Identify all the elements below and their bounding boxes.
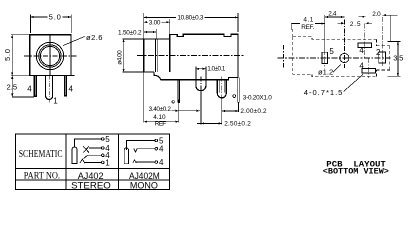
dimension 5.0 top — [30, 12, 71, 33]
svg-text:MONO: MONO — [130, 180, 158, 191]
dimension 10.80+-0.3 — [144, 13, 238, 32]
pad 2 right — [379, 52, 386, 63]
dimension 1.50+-0.2 — [118, 29, 156, 39]
svg-text:4: 4 — [359, 61, 364, 70]
svg-text:ø2.6: ø2.6 — [86, 33, 103, 42]
body bottom-left step — [153, 72, 155, 75]
switch contact lower — [83, 155, 87, 159]
svg-text:REF: REF — [155, 121, 166, 128]
switch contact v — [134, 149, 137, 152]
svg-text:1: 1 — [105, 158, 110, 167]
dimension 3.5 — [388, 41, 404, 76]
centerline hole — [343, 20, 345, 69]
leader + label o2.6 — [63, 33, 103, 46]
wire to terminal 4a — [89, 147, 102, 149]
svg-text:2.00±0.2: 2.00±0.2 — [240, 108, 267, 115]
svg-text:4: 4 — [69, 85, 74, 94]
svg-text:4: 4 — [359, 46, 364, 55]
terminal 1 — [102, 161, 105, 164]
wire to terminal 5 — [126, 141, 155, 148]
svg-text:4-0.7*1.5: 4-0.7*1.5 — [304, 88, 343, 97]
dimension 2.50+-0.2 — [197, 121, 251, 128]
svg-text:5: 5 — [329, 47, 334, 56]
centerline pads 4 — [363, 24, 365, 59]
svg-text:3-0.20X1.0: 3-0.20X1.0 — [243, 95, 272, 102]
terminal 5 — [102, 138, 105, 141]
svg-text:4.1: 4.1 — [303, 16, 313, 23]
sleeve/bushing side — [144, 39, 170, 72]
terminal 4b — [102, 154, 105, 157]
wire to terminal 4b — [88, 154, 102, 156]
svg-text:3.00: 3.00 — [149, 19, 161, 26]
jack body front view — [30, 35, 75, 76]
dimension 2.00+-0.2 — [222, 108, 267, 115]
hole o1.2 — [340, 53, 349, 62]
dimension 3.40+-0.2 — [149, 106, 200, 113]
extension centerline U2 — [221, 77, 223, 98]
extension pad5 top — [324, 15, 326, 50]
extension sleeve tip down — [143, 72, 145, 123]
dimension 1.0+-0.1 (U1 pin width) — [196, 66, 226, 80]
wire to terminal 1 — [85, 161, 102, 163]
table grid — [16, 134, 170, 190]
horizontal centerline — [24, 55, 77, 57]
dimension 5.0 left — [3, 35, 30, 76]
pin U2 round side view — [217, 80, 226, 98]
svg-text:10.80±0.3: 10.80±0.3 — [177, 14, 203, 21]
svg-text:REF.: REF. — [301, 24, 314, 31]
centerline pad5 — [324, 50, 326, 69]
centerline side view — [137, 54, 245, 56]
svg-text:5.0: 5.0 — [3, 49, 12, 61]
small circle marker right pin — [233, 95, 236, 98]
dimension 3.00 — [144, 19, 170, 39]
svg-text:1.0±0.1: 1.0±0.1 — [207, 66, 225, 73]
small circle marker left pin — [172, 101, 174, 103]
dimension 2.5 (pin length) — [7, 76, 35, 97]
pin U1 round side view — [196, 80, 206, 91]
pad 4 top — [358, 43, 372, 48]
pin (flat) right side view — [238, 77, 240, 102]
pin 4 left (front) — [34, 76, 36, 97]
svg-text:SCHEMATIC: SCHEMATIC — [19, 149, 63, 160]
svg-text:2.5: 2.5 — [7, 82, 18, 91]
svg-text:3.5: 3.5 — [393, 53, 403, 62]
wire to terminal 4a — [137, 148, 155, 150]
svg-text:2.0: 2.0 — [372, 11, 381, 18]
svg-text:4: 4 — [159, 145, 164, 154]
bushing middle circle — [39, 45, 61, 67]
svg-text:1.50±0.2: 1.50±0.2 — [118, 29, 142, 36]
jack barrel mono — [124, 148, 128, 164]
main horizontal centerline pcb — [278, 57, 391, 59]
svg-text:2: 2 — [376, 48, 381, 57]
dimension 2.4 — [325, 11, 345, 19]
svg-text:ø1.2: ø1.2 — [318, 68, 333, 77]
jack hole circle o2.6 — [40, 46, 59, 65]
terminal 4a — [155, 147, 158, 150]
svg-text:1: 1 — [53, 97, 58, 106]
svg-text:PART NO.: PART NO. — [24, 170, 60, 181]
svg-text:4: 4 — [159, 158, 164, 167]
svg-text:STEREO: STEREO — [71, 180, 111, 191]
pad 5 — [322, 52, 328, 63]
extension centerline U1 — [200, 77, 202, 91]
wire to terminal 4b — [136, 161, 155, 163]
svg-text:5.0: 5.0 — [49, 12, 61, 21]
terminal 4a — [102, 147, 105, 150]
dimension 2.5 — [338, 21, 373, 28]
pin (flat) left side view — [178, 80, 180, 102]
svg-text:5: 5 — [105, 135, 110, 144]
svg-text:4: 4 — [27, 85, 32, 94]
extension left pin down — [178, 102, 180, 123]
bushing outer circle — [36, 42, 63, 69]
svg-text:2.5: 2.5 — [350, 21, 361, 28]
switch contact X upper — [83, 146, 89, 152]
dimension 4.10 REF — [144, 114, 179, 127]
tip contact arrow — [80, 159, 85, 163]
tip contact arrow mono — [133, 160, 136, 163]
pad 4 bottom — [362, 69, 376, 74]
terminal 5 — [155, 139, 158, 142]
dimension 4.1 REF. — [291, 16, 324, 31]
terminal 4b — [155, 161, 158, 164]
svg-text:ø4.00: ø4.00 — [117, 50, 124, 65]
dimension 2.0 — [359, 11, 391, 18]
svg-text:2.4: 2.4 — [328, 11, 337, 18]
jack barrel stereo — [72, 147, 77, 164]
centerline right pad — [382, 17, 384, 66]
pin 1 center (front) — [46, 76, 53, 100]
extension right pin down — [238, 102, 240, 112]
pin 4 right (front) — [65, 76, 67, 96]
label o1.2 + leader — [318, 65, 341, 77]
vertical centerline — [49, 35, 51, 76]
svg-text:<BOTTOM VIEW>: <BOTTOM VIEW> — [323, 168, 389, 177]
label 4-0.7*1.5 + leader — [304, 75, 363, 98]
body outline side view — [154, 34, 238, 80]
wire to terminal 5 — [75, 139, 102, 147]
right corner tick — [391, 15, 398, 41]
svg-text:2.50±0.2: 2.50±0.2 — [224, 121, 251, 128]
component outline dashed — [293, 29, 390, 77]
dimension o4.00 — [117, 39, 144, 72]
svg-text:3.40±0.2: 3.40±0.2 — [149, 106, 172, 113]
